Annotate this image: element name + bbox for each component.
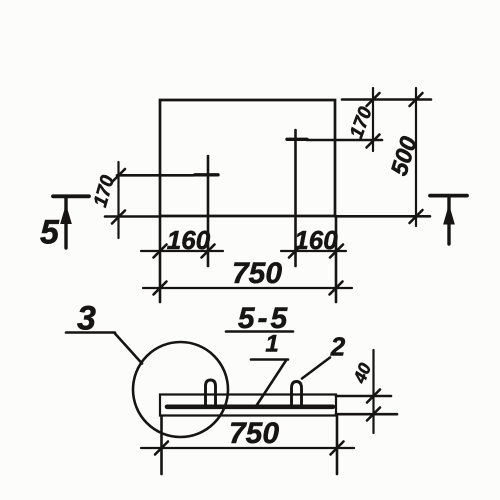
svg-text:5: 5: [40, 214, 60, 252]
lifting loop 1 (section): [206, 380, 216, 407]
svg-text:170: 170: [90, 173, 119, 210]
tick 160b right: [330, 245, 343, 258]
svg-text:750: 750: [229, 417, 279, 450]
wire plate left edge extension down: [160, 416, 163, 474]
dimension line 750 plan: [143, 287, 352, 289]
wire plate right edge extension down: [336, 416, 339, 474]
reinforcement mesh thick bar: [167, 404, 333, 409]
plate outline (section view): [160, 395, 336, 416]
svg-text:5-5: 5-5: [238, 302, 290, 335]
wire plate top extension right: [336, 395, 391, 398]
section mark left bar: [53, 194, 89, 198]
tick 40 bottom: [367, 408, 380, 421]
wire rect bottom extension left: [105, 215, 160, 218]
dimension line 750 section: [141, 447, 354, 449]
tick 170 left top: [112, 169, 125, 182]
dimension line 500: [415, 88, 417, 226]
plate outline (plan view rectangle): [160, 100, 335, 216]
wire extension loop1 to left dim: [117, 174, 194, 177]
lifting loop 2 (section): [292, 382, 302, 407]
callout 3 underline: [66, 331, 115, 334]
callout 1 leader: [257, 361, 287, 406]
callout 2 leader: [302, 358, 330, 379]
section mark right bar: [430, 194, 467, 198]
wire extension loop2 to right dim: [307, 139, 382, 142]
section mark right arrow: [444, 206, 454, 224]
svg-text:160: 160: [294, 225, 338, 255]
tick 170 right top: [367, 93, 380, 106]
dimension line 40: [372, 350, 374, 433]
tick 750a right: [330, 282, 343, 295]
dimension line 170 right: [372, 88, 374, 151]
node loop1 plan cross tick: [195, 173, 218, 176]
node loop1 plan cross vertical: [207, 156, 210, 266]
section mark left arrow: [61, 206, 71, 224]
callout 3 leader: [115, 333, 143, 364]
tick 750a left: [154, 282, 167, 295]
wire rect bottom extension right: [335, 215, 430, 218]
tick 170 right bottom: [367, 135, 380, 148]
wire rect right edge extension down: [335, 216, 338, 302]
tick 160b left: [289, 245, 302, 258]
svg-text:2: 2: [330, 332, 346, 362]
node loop2 plan cross vertical: [294, 130, 297, 266]
tick 500 top: [410, 93, 423, 106]
dimension line 170 left: [117, 162, 119, 238]
node loop2 plan cross tick: [287, 138, 307, 141]
svg-text:750: 750: [232, 257, 282, 290]
dimension line 160 first: [141, 250, 223, 252]
wire top extension right: [342, 98, 431, 101]
tick 170 left bottom: [112, 211, 125, 224]
section mark left stem: [64, 196, 67, 248]
svg-text:160: 160: [167, 225, 211, 255]
tick 750b right: [331, 442, 344, 455]
svg-text:40: 40: [349, 360, 375, 387]
tick 160a right: [202, 245, 215, 258]
wire rect left edge extension down: [159, 216, 162, 302]
tick 160a left: [154, 245, 167, 258]
wire plate bottom extension right: [336, 413, 397, 416]
callout 1 underline: [251, 358, 288, 361]
svg-text:1: 1: [265, 331, 278, 358]
dimension line 160 second: [281, 250, 346, 252]
section mark right stem: [447, 196, 450, 244]
tick 750b left: [155, 442, 168, 455]
section title underline: [226, 330, 293, 333]
tick 500 bottom: [410, 210, 423, 223]
tick 40 top: [367, 390, 380, 403]
detail circle: [133, 342, 228, 437]
